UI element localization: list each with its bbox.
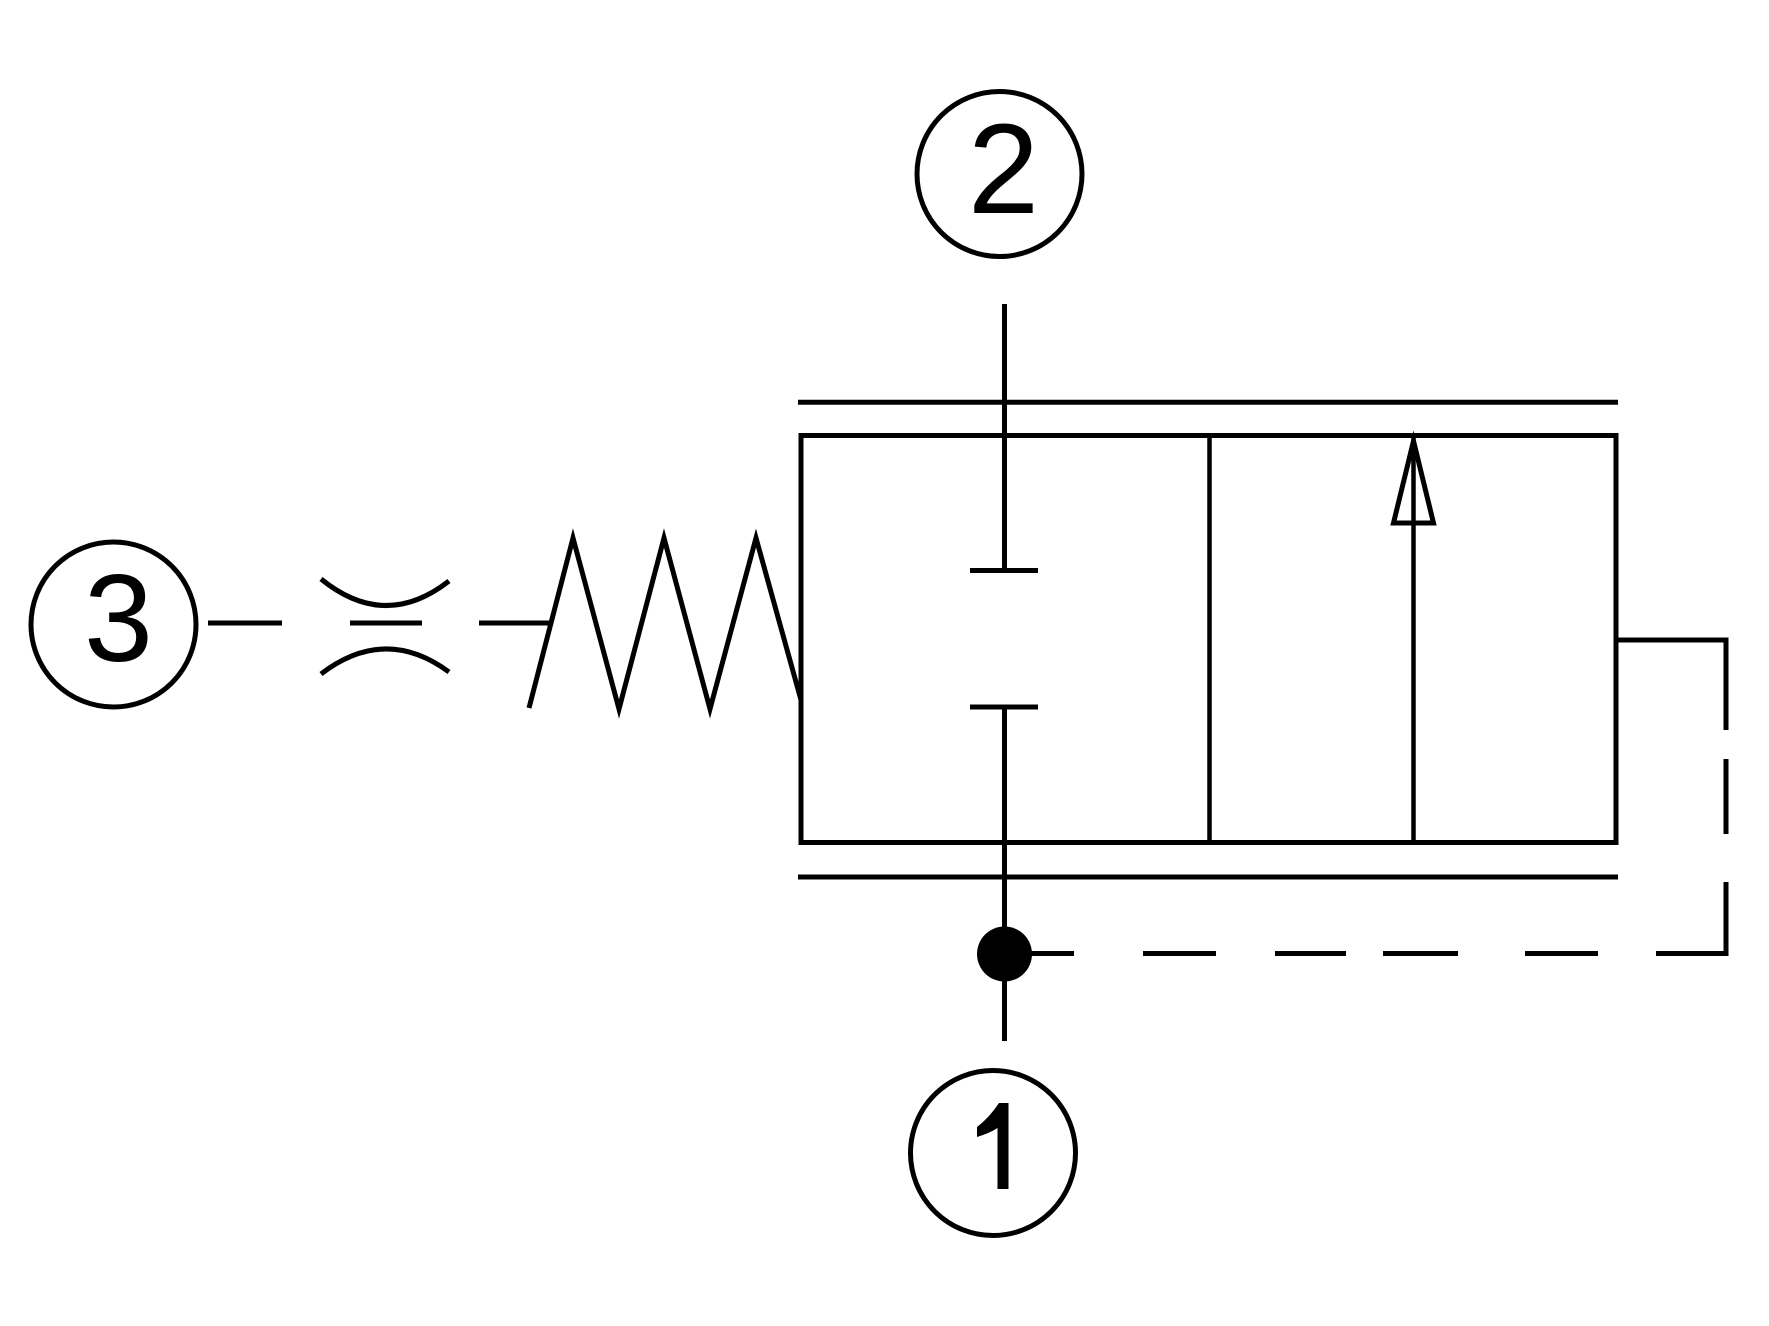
pilot dash h2 xyxy=(1383,951,1458,956)
pilot dash v1 xyxy=(1724,759,1729,834)
cartridge envelope bottom line xyxy=(798,875,1618,880)
pilot dash h1 xyxy=(1525,951,1598,956)
pilot dash b xyxy=(350,621,422,626)
position divider xyxy=(1207,436,1212,843)
svg-text:3: 3 xyxy=(84,550,153,688)
port 1 circle xyxy=(911,1071,1076,1236)
flow arrow line xyxy=(1411,438,1416,843)
orifice top arc xyxy=(321,579,449,606)
pilot dash a xyxy=(208,621,282,626)
svg-text:2: 2 xyxy=(968,98,1039,241)
spring xyxy=(529,538,801,709)
wire valve to node xyxy=(1002,707,1007,1041)
pilot stub at node xyxy=(1005,951,1075,956)
pilot dash h3 xyxy=(1275,951,1346,956)
orifice bottom arc xyxy=(321,649,449,674)
port 1 label xyxy=(977,1103,1009,1189)
pilot dash c xyxy=(479,621,551,626)
valve body U1 xyxy=(801,436,1616,843)
junction node xyxy=(977,927,1032,982)
flow arrowhead xyxy=(1394,441,1434,523)
pilot stub right xyxy=(1616,640,1726,730)
wire port 2 to valve xyxy=(1002,304,1007,570)
blocked seat lower T bar xyxy=(970,705,1038,710)
port 2 circle xyxy=(917,92,1082,257)
pilot corner dash xyxy=(1656,882,1726,954)
port 3 circle xyxy=(31,542,196,707)
blocked seat upper T bar xyxy=(970,568,1038,573)
pilot dash h4 xyxy=(1143,951,1216,956)
cartridge envelope top line xyxy=(798,400,1618,405)
